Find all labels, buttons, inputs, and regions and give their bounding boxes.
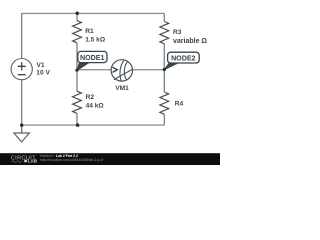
ground (14, 125, 29, 142)
footer bar (0, 153, 220, 165)
node flag NODE2 (165, 52, 200, 69)
wire left branch lower (21, 80, 23, 125)
resistor R2 (73, 91, 82, 113)
wire right branch R3-NODE2 (163, 44, 165, 70)
junction node1 (75, 69, 78, 72)
voltmeter VM1 (111, 60, 133, 81)
svg-text:LAB: LAB (28, 159, 37, 164)
resistor R3 (160, 22, 169, 44)
resistor R4 (160, 92, 169, 114)
wire mid branch NODE1-R2 (76, 70, 78, 91)
svg-text:R2: R2 (86, 94, 95, 101)
wire mid branch R2 bottom lead (76, 113, 78, 125)
svg-text:R1: R1 (85, 28, 94, 35)
junction top (75, 12, 79, 16)
svg-text:R3: R3 (173, 29, 182, 36)
wire mid rail NODE1 to VM1 (77, 69, 111, 71)
wire right branch top lead (163, 13, 165, 21)
svg-text:10 V: 10 V (36, 70, 50, 77)
wire bottom rail (22, 124, 165, 126)
junction bottom-mid (76, 123, 80, 127)
wire top rail (22, 12, 165, 14)
junction bottom-left (20, 123, 24, 127)
wire right branch bottom lead (163, 114, 165, 125)
svg-text:V1: V1 (37, 62, 45, 69)
svg-text:NODE1: NODE1 (80, 54, 104, 62)
wire left branch upper (21, 13, 23, 58)
resistor R1 (73, 21, 82, 43)
voltage source V1 (11, 59, 32, 80)
wire right branch NODE2-R4 (163, 70, 165, 92)
wire mid branch R1 top lead (76, 13, 78, 20)
svg-text:http://circuitlab.com/c/484434: http://circuitlab.com/c/48443468/lab-2-p… (40, 158, 103, 162)
svg-text:NODE2: NODE2 (171, 55, 195, 63)
node flag NODE1 (77, 51, 107, 70)
logo circuitlab (11, 156, 37, 164)
svg-text:44 kΩ: 44 kΩ (86, 103, 105, 110)
wire VM1 to NODE2 (133, 69, 165, 71)
wire mid branch R1-NODE1 (76, 43, 78, 70)
svg-text:1.5 kΩ: 1.5 kΩ (85, 37, 106, 44)
svg-text:variable Ω: variable Ω (173, 38, 207, 45)
svg-text:R4: R4 (175, 101, 184, 108)
svg-text:VM1: VM1 (115, 85, 129, 92)
junction node2 (163, 68, 166, 71)
